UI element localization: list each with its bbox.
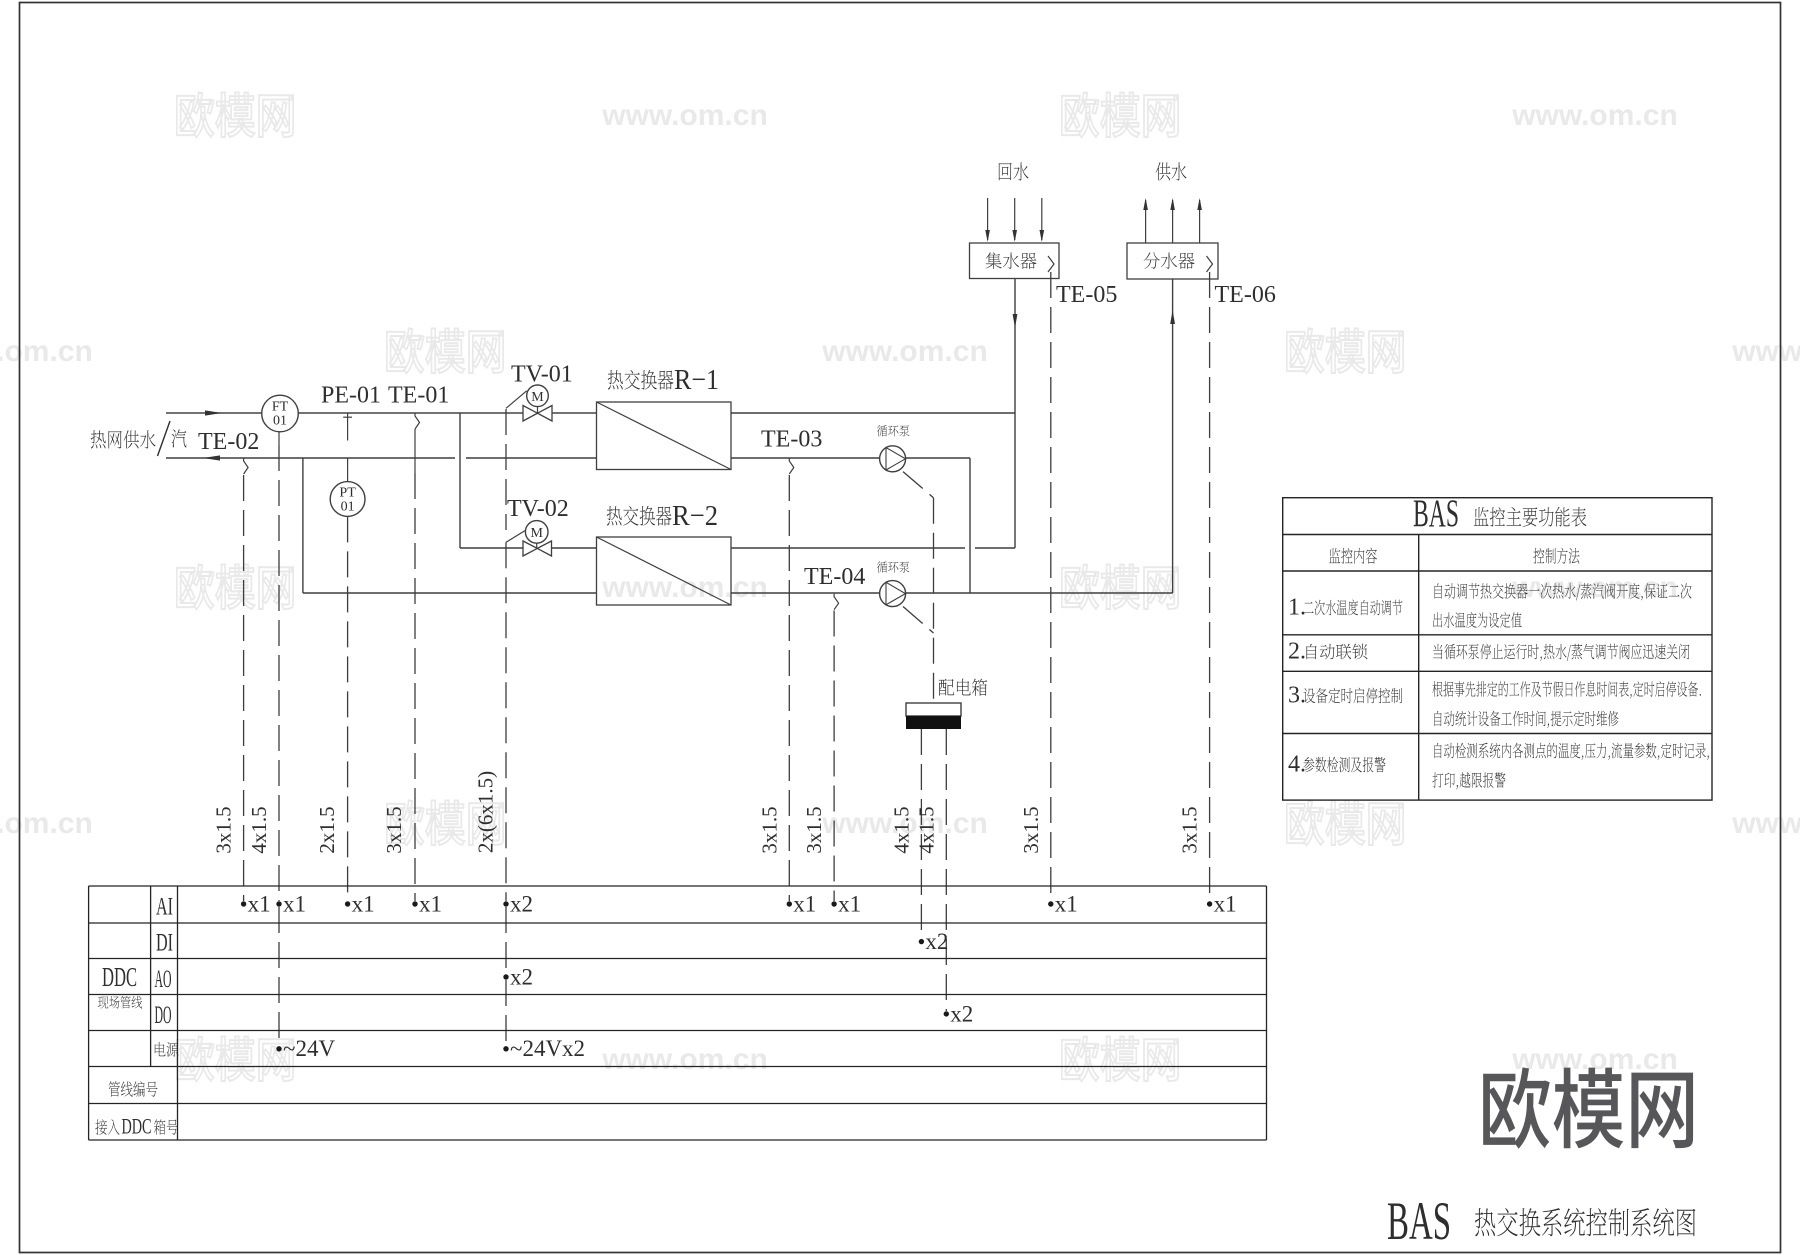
svg-text:R−2: R−2 — [672, 500, 718, 532]
svg-text:www.om.cn: www.om.cn — [1731, 335, 1800, 368]
svg-text:BAS: BAS — [1387, 1191, 1451, 1251]
svg-text:M: M — [531, 390, 544, 405]
svg-text:x1: x1 — [1214, 892, 1237, 917]
svg-text:x2: x2 — [950, 1001, 973, 1026]
svg-text:TE-01: TE-01 — [388, 383, 449, 409]
svg-text:www.om.cn: www.om.cn — [821, 335, 988, 368]
svg-text:~24Vx2: ~24Vx2 — [510, 1036, 585, 1061]
svg-text:FT: FT — [272, 400, 289, 415]
svg-text:x2: x2 — [925, 929, 948, 954]
svg-text:DDC: DDC — [102, 962, 137, 992]
svg-text:4x1.5: 4x1.5 — [889, 806, 913, 853]
svg-text:x2: x2 — [510, 965, 533, 990]
svg-text:x2: x2 — [510, 892, 533, 917]
svg-text:www.om.cn: www.om.cn — [601, 99, 768, 132]
svg-text:DI: DI — [156, 930, 173, 957]
svg-text:TE-05: TE-05 — [1056, 282, 1117, 308]
svg-text:www.om.cn: www.om.cn — [0, 335, 93, 368]
svg-text:3x1.5: 3x1.5 — [1019, 806, 1043, 853]
svg-text:x1: x1 — [1055, 892, 1078, 917]
svg-text:DDC: DDC — [122, 1114, 152, 1139]
svg-text:PT: PT — [339, 486, 356, 501]
svg-text:TE-06: TE-06 — [1215, 282, 1276, 308]
svg-text:www.om.cn: www.om.cn — [1731, 807, 1800, 840]
svg-text:TE-02: TE-02 — [198, 429, 259, 455]
svg-text:www.om.cn: www.om.cn — [1511, 571, 1678, 604]
svg-text:2.: 2. — [1288, 639, 1306, 665]
svg-text:4x1.5: 4x1.5 — [914, 806, 938, 853]
svg-text:4.: 4. — [1288, 752, 1306, 778]
svg-text:2x1.5: 2x1.5 — [315, 806, 339, 853]
svg-text:3x1.5: 3x1.5 — [1178, 806, 1202, 853]
svg-text:x1: x1 — [838, 892, 861, 917]
svg-text:3x1.5: 3x1.5 — [757, 806, 781, 853]
svg-text:1.: 1. — [1288, 595, 1306, 621]
svg-text:01: 01 — [341, 500, 355, 515]
svg-text:TV-01: TV-01 — [511, 362, 573, 388]
svg-text:x1: x1 — [248, 892, 271, 917]
svg-text:DO: DO — [155, 1002, 172, 1029]
svg-text:AI: AI — [156, 894, 173, 921]
svg-text:BAS: BAS — [1413, 492, 1459, 535]
svg-text:x1: x1 — [352, 892, 375, 917]
svg-text:www.om.cn: www.om.cn — [601, 571, 768, 604]
svg-text:4x1.5: 4x1.5 — [247, 806, 271, 853]
svg-text:3.: 3. — [1288, 683, 1306, 709]
svg-text:TE-04: TE-04 — [804, 564, 865, 590]
svg-text:AO: AO — [155, 966, 172, 993]
svg-text:x1: x1 — [419, 892, 442, 917]
svg-text:M: M — [530, 526, 543, 541]
svg-text:01: 01 — [273, 414, 287, 429]
svg-text:TE-03: TE-03 — [761, 427, 822, 453]
svg-text:3x1.5: 3x1.5 — [212, 806, 236, 853]
svg-text:www.om.cn: www.om.cn — [601, 1043, 768, 1076]
svg-text:3x1.5: 3x1.5 — [382, 806, 406, 853]
svg-text:PE-01: PE-01 — [321, 383, 381, 409]
svg-text:x1: x1 — [793, 892, 816, 917]
svg-text:R−1: R−1 — [674, 364, 719, 396]
svg-text:www.om.cn: www.om.cn — [1511, 99, 1678, 132]
svg-text:x1: x1 — [283, 892, 306, 917]
svg-text:TV-02: TV-02 — [507, 496, 569, 522]
svg-text:2x(6x1.5): 2x(6x1.5) — [473, 771, 497, 853]
svg-text:~24V: ~24V — [283, 1036, 335, 1061]
svg-text:3x1.5: 3x1.5 — [802, 806, 826, 853]
svg-text:www.om.cn: www.om.cn — [0, 807, 93, 840]
